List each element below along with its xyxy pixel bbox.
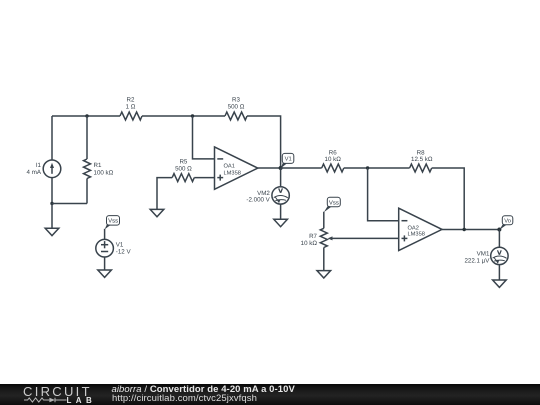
svg-text:12.5 kΩ: 12.5 kΩ	[411, 156, 433, 163]
wire V1 to ground	[104, 257, 106, 270]
svg-text:222.1 µV: 222.1 µV	[464, 258, 490, 265]
wire R1 bottom	[86, 179, 88, 204]
footer title	[112, 385, 295, 395]
wire R7 bottom to ground	[323, 248, 325, 271]
wire feedback tap to OA1 inverting input	[193, 116, 215, 159]
current source I1	[27, 160, 61, 178]
flag Vss (R7)	[324, 197, 341, 212]
wire VM1 to ground	[498, 265, 500, 280]
svg-text:V1: V1	[116, 241, 124, 248]
voltmeter VM2	[246, 187, 289, 204]
footer url	[112, 394, 257, 404]
svg-text:100 kΩ: 100 kΩ	[94, 169, 114, 176]
wire VM2 to ground	[280, 204, 282, 219]
footer bar	[0, 384, 540, 405]
svg-text:4 mA: 4 mA	[27, 169, 42, 176]
ground G1	[45, 228, 59, 235]
ground G3	[98, 270, 112, 277]
svg-text:LM358: LM358	[224, 171, 241, 177]
node junction bottom-left	[50, 202, 53, 205]
svg-text:R7: R7	[309, 233, 317, 240]
svg-text:Vss: Vss	[329, 199, 339, 206]
node v1 junction	[279, 166, 283, 170]
svg-text:Vo: Vo	[504, 219, 511, 225]
svg-text:Vss: Vss	[108, 218, 118, 225]
op-amp OA1 LM358	[215, 147, 258, 189]
ground G5	[317, 271, 331, 278]
svg-text:500 Ω: 500 Ω	[228, 103, 245, 110]
svg-text:-2.000 V: -2.000 V	[246, 197, 270, 204]
wire OA2 output	[442, 229, 499, 231]
node junction feedback tap	[191, 114, 194, 117]
ground G6	[493, 280, 507, 287]
wire top rail left segment	[52, 115, 120, 117]
resistor R8	[410, 149, 433, 172]
svg-text:R1: R1	[94, 162, 102, 169]
ground G2	[150, 209, 164, 216]
wire Vss to R7	[323, 212, 325, 229]
flag V1	[281, 153, 294, 168]
wire Vo down to VM1	[498, 230, 500, 248]
voltmeter VM1	[464, 247, 508, 265]
node junction feedback R8	[463, 228, 466, 231]
CircuitLab logo text	[23, 386, 92, 397]
svg-text:LM358: LM358	[408, 232, 425, 238]
wire R6 to junction	[344, 167, 410, 169]
wire bottom link to R1	[52, 203, 87, 205]
LAB logo text	[67, 397, 97, 404]
svg-text:1 Ω: 1 Ω	[126, 103, 136, 110]
svg-text:V1: V1	[285, 157, 292, 163]
resistor R5	[172, 158, 194, 181]
svg-text:R3: R3	[232, 96, 240, 103]
op-amp OA2 LM358	[399, 208, 442, 250]
potentiometer R7	[301, 228, 333, 247]
svg-text:500 Ω: 500 Ω	[175, 165, 192, 172]
wire v1 to R6	[281, 167, 322, 169]
wire I1 bottom	[51, 178, 53, 204]
ground G4	[274, 219, 288, 226]
logo resistor squiggle	[24, 398, 49, 402]
node junction R1 top tap	[85, 114, 88, 117]
wire OA1 output	[258, 167, 281, 169]
CircuitLab logo squiggle (resistor + diode)	[24, 397, 67, 403]
svg-text:10 kΩ: 10 kΩ	[325, 156, 342, 163]
svg-text:I1: I1	[36, 162, 42, 169]
svg-text:OA1: OA1	[224, 163, 235, 169]
svg-text:-12 V: -12 V	[116, 249, 132, 256]
wire R8 right corner down to output	[432, 168, 465, 230]
resistor R2	[120, 96, 142, 120]
resistor R1	[84, 159, 114, 179]
wire R5 left with ground stem	[157, 178, 172, 210]
wire R5 to OA1 non-inverting input	[194, 177, 214, 179]
voltage source V1	[96, 239, 132, 257]
wire I1 top	[51, 116, 53, 160]
svg-text:10 kΩ: 10 kΩ	[301, 240, 318, 247]
wire Vss to V1	[104, 229, 106, 240]
wire to ground G1	[51, 204, 53, 229]
svg-text:R2: R2	[127, 96, 135, 103]
node junction R6/R8	[366, 166, 369, 169]
wire R7 wiper to OA2 non-inverting input	[333, 237, 399, 239]
wire junction down to OA2 inverting input	[368, 168, 399, 221]
resistor R3	[225, 96, 247, 120]
svg-text:VM1: VM1	[477, 251, 490, 258]
flag Vo	[499, 216, 512, 230]
wire R1 top	[86, 116, 88, 159]
flag Vss (V1 supply)	[105, 216, 120, 230]
node Vo junction	[497, 228, 501, 232]
logo diode	[50, 397, 56, 402]
svg-text:OA2: OA2	[408, 225, 419, 231]
resistor R6	[322, 149, 344, 172]
wire v1 down to VM2	[280, 168, 282, 187]
wire top rail right corner down to v1 node	[247, 116, 281, 168]
wire top rail mid segment	[142, 115, 225, 117]
